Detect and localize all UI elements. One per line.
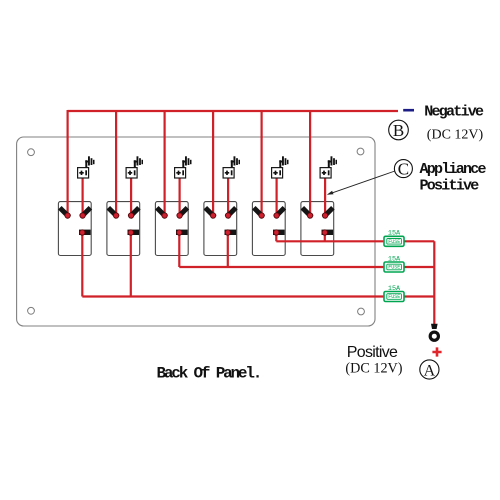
- svg-text:(DC 12V): (DC 12V): [345, 361, 402, 377]
- svg-text:C: C: [398, 160, 409, 179]
- svg-text:B: B: [393, 121, 404, 140]
- svg-text:Positive: Positive: [420, 178, 480, 195]
- svg-text:Positive: Positive: [347, 344, 398, 361]
- svg-text:A: A: [424, 362, 436, 379]
- svg-text:Back Of Panel.: Back Of Panel.: [157, 365, 261, 383]
- svg-text:Negative: Negative: [424, 104, 484, 121]
- svg-text:Appliance: Appliance: [420, 161, 487, 178]
- svg-text:(DC 12V): (DC 12V): [427, 128, 484, 143]
